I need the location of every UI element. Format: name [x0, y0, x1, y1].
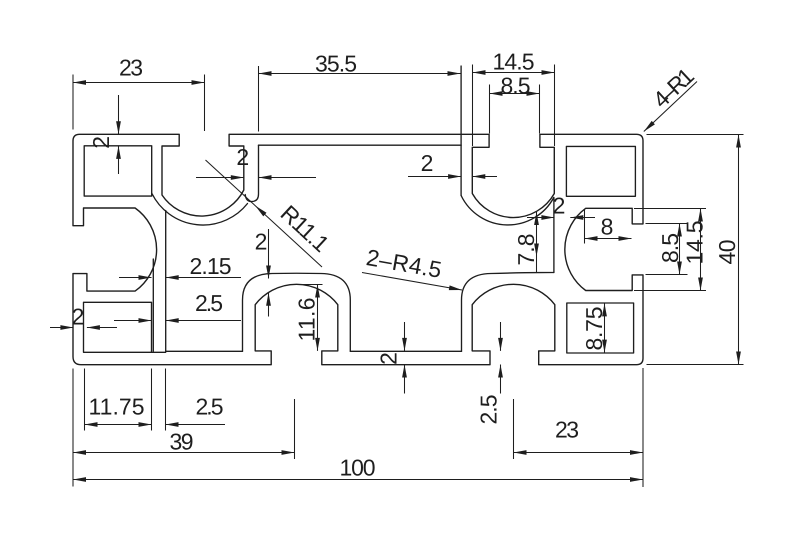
arrowheads [60, 70, 740, 482]
dim 39: extension line right [294, 399, 296, 459]
svg-text:2.5: 2.5 [195, 290, 223, 316]
dim 2 wall top-left leaders [118, 95, 120, 174]
arrows dim 39 [73, 450, 295, 455]
wall right of top-right slot down to right dome [553, 198, 555, 273]
dim 8.5 top: extension lines [490, 85, 540, 134]
dim 14.5 top: extension lines [473, 65, 555, 147]
arrow 2-R4.5 [449, 285, 462, 290]
leader 2-R4.5 [362, 273, 462, 291]
svg-text:2.5: 2.5 [476, 395, 502, 425]
dim 2.5 left leaders [114, 320, 241, 322]
svg-text:14.5: 14.5 [493, 48, 535, 74]
arrows dim 2.15 [139, 275, 179, 280]
svg-text:2: 2 [553, 193, 566, 219]
dim 8.75 line [604, 303, 606, 352]
profile outer outline (100x40 extrusion cross-section) [73, 134, 643, 364]
dim 2 bottom leaders [404, 322, 406, 394]
dim 35.5: extension lines [258, 66, 260, 132]
square hole bottom-right [567, 303, 634, 353]
right bottom T-slot outer wall [462, 273, 554, 352]
interior walls and holes [84, 66, 636, 353]
central web right wall [165, 211, 167, 352]
arrows dim 2.5 bottom-center [498, 338, 503, 378]
dim 100: dimension line [73, 479, 643, 481]
dim 14.5 right: dimension line [700, 209, 702, 291]
svg-text:100: 100 [340, 455, 376, 481]
arrows dim 8 [585, 236, 632, 241]
central web left wall [152, 259, 154, 351]
dim 23 bottom: dimension line [514, 452, 644, 454]
svg-text:2: 2 [88, 136, 114, 149]
arrows dim 11.75 [85, 422, 152, 427]
dim 35.5: dimension line [259, 73, 461, 75]
dim 2.5 bottom-center leaders [500, 322, 502, 394]
dim 8.5 right: extension lines [646, 224, 688, 275]
dim 2 left edge leaders [50, 327, 117, 329]
leader 4-R1 [644, 82, 697, 132]
svg-text:2: 2 [236, 144, 249, 170]
bottom wall inner surface right segment [350, 350, 461, 352]
dimension lines, extension lines and leaders [50, 65, 744, 488]
narrow channel right of center: left wall (also extension of dim 35.5) [460, 66, 462, 196]
svg-text:8.5: 8.5 [501, 73, 531, 99]
arrows dim 11.6 [315, 285, 320, 351]
svg-text:23: 23 [119, 54, 143, 80]
dim 14.5 right: extension lines [634, 209, 706, 291]
dim 23 top: dimension line [73, 82, 205, 84]
square hole bottom-left [84, 302, 152, 352]
svg-text:8.75: 8.75 [581, 307, 607, 351]
arrows dim 100 [73, 477, 643, 482]
dim 2.15 leaders [119, 277, 241, 279]
svg-text:39: 39 [170, 429, 194, 455]
dim 11.75: dimension line [85, 424, 152, 426]
dim 7.8 line [536, 212, 538, 273]
svg-text:2.5: 2.5 [196, 394, 224, 420]
dim 2 right leaders [527, 217, 595, 219]
arrows dim 2 bottom [402, 338, 407, 378]
arrow dim 2.5 bottom-left [166, 422, 179, 427]
central bottom T-slot outer wall [243, 273, 351, 351]
svg-text:11.75: 11.75 [89, 394, 145, 420]
dim 40: extension lines [647, 135, 744, 365]
dim 11.6: extension tick and line [297, 285, 323, 351]
arrows dim 2 left edge [60, 325, 100, 330]
svg-text:2: 2 [421, 150, 434, 176]
top wall underside [259, 144, 462, 146]
svg-text:35.5: 35.5 [315, 50, 357, 76]
arrows dim 14.5 right [698, 209, 703, 291]
svg-text:2: 2 [255, 228, 268, 254]
square hole top-left [84, 146, 152, 196]
dim 2 channel left leaders [196, 177, 316, 179]
narrow channel left of center: right wall with U bottom [245, 145, 258, 201]
arrows dim 2 channel right [448, 174, 485, 179]
arrow R11.1 [255, 206, 266, 217]
svg-text:2.15: 2.15 [190, 253, 232, 279]
dim 2 channel right leaders [408, 176, 497, 178]
dim 23 top: extension lines [73, 75, 205, 132]
svg-text:23: 23 [555, 417, 579, 443]
svg-text:7.8: 7.8 [513, 234, 539, 266]
dim 8.5 top: dimension line [490, 93, 540, 95]
dim 11.75: extension lines [85, 369, 152, 431]
dim 8 line and left extension [585, 209, 632, 244]
arrows dim 8.5 top [490, 91, 540, 96]
arrows dim 2 wall top-left [116, 121, 121, 159]
arrows dim 23 top [73, 80, 205, 85]
arrows dim 2 channel left [231, 175, 272, 180]
arrows dim 2 center [266, 266, 271, 306]
svg-text:11.6: 11.6 [294, 298, 320, 342]
top-right slot outer bottom arc [461, 196, 554, 225]
arrows dim 14.5 top [473, 70, 555, 75]
arrows dim 40 [736, 135, 741, 365]
arrows dim 8.5 right [677, 224, 682, 275]
svg-text:40: 40 [714, 240, 740, 265]
dim 39: dimension line [73, 452, 295, 454]
arrow 4-R1 [644, 121, 655, 132]
bottom wall inner surface left segment [152, 351, 243, 352]
arrows dim 2 right [541, 215, 583, 220]
arrows dim 7.8 [534, 212, 539, 257]
dim 23 bottom: extension lines [514, 368, 644, 487]
dim 8.5 right: dimension line [679, 224, 681, 275]
square hole top-right [566, 146, 635, 196]
dim 100: extension line left [72, 369, 74, 487]
svg-text:2: 2 [72, 304, 85, 330]
svg-text:8: 8 [601, 214, 614, 240]
dimension texts [72, 48, 740, 480]
svg-text:2: 2 [376, 352, 402, 365]
svg-text:8.5: 8.5 [657, 233, 683, 263]
arrows dim 2.5 left [139, 318, 179, 323]
svg-text:14.5: 14.5 [682, 221, 708, 265]
dim 14.5 top: dimension line [473, 72, 555, 74]
round cavity outer wall arc [152, 194, 248, 226]
arrows dim 23 bottom [514, 450, 644, 455]
arrows dim 8.75 [602, 303, 607, 352]
dim 2.5 bottom-left leader [166, 369, 226, 431]
dim 40: dimension line [738, 135, 740, 365]
dim 2 center leaders [268, 229, 270, 317]
arrows dim 35.5 [259, 71, 461, 76]
leader R11.1 [206, 160, 323, 267]
